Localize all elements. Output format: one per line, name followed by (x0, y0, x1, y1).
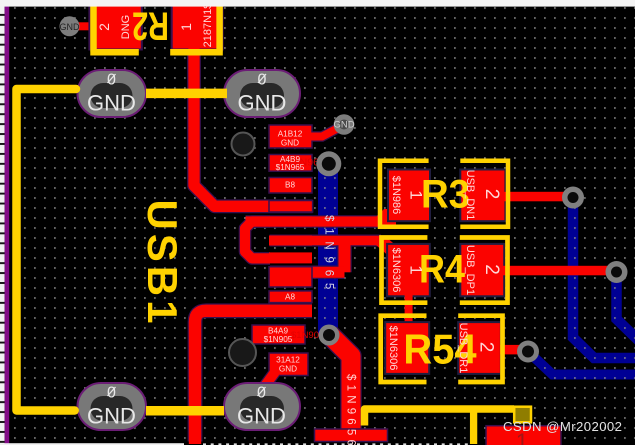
svg-text:USB_DR1: USB_DR1 (457, 323, 469, 374)
svg-text:2: 2 (476, 342, 497, 353)
svg-text:USB1: USB1 (139, 199, 186, 327)
silkscreen R3 right bracket (460, 161, 508, 227)
svg-text:GND: GND (333, 120, 354, 131)
svg-text:B8: B8 (285, 181, 295, 190)
mounting pad GND oval 3 (78, 383, 147, 430)
pad: yellow square (514, 407, 531, 423)
silkscreen R4 left bracket (382, 238, 428, 303)
svg-text:CSDN @Mr202002: CSDN @Mr202002 (503, 419, 622, 434)
wire: R4 pad1 down to R54 pad1 (405, 294, 413, 324)
wire: U-turn meander left (245, 222, 270, 259)
USB1 pad B1A12 (GND) (269, 353, 308, 376)
wire: R54 pad2 to via V3 (500, 345, 528, 355)
wire: yellow route bottom (stub, horizontal to square pad) (365, 409, 515, 426)
wire: GND route between ovals (top) (146, 89, 227, 99)
wire fringes (dark violet edges) (194, 46, 390, 442)
silkscreen R2 right bracket (170, 0, 223, 52)
silkscreen R54 right bracket (458, 316, 502, 382)
USB1 pad row p6 (269, 236, 312, 246)
svg-text:GND: GND (281, 139, 299, 148)
silkscreen R4 right bracket (460, 238, 508, 303)
silkscreen R54 left bracket (381, 316, 427, 382)
blue trace from via V1 (USB_DN1 bottom layer) (573, 197, 635, 358)
wire: bar2 diagonal into R4 pad1 corner (376, 236, 400, 258)
svg-text:GND: GND (238, 91, 287, 116)
wire: GND route left (top arm, vertical, bottom arm) (17, 89, 77, 411)
hole H1 (232, 133, 255, 156)
via V_GND2 (334, 114, 355, 135)
mounting pad GND oval 1 (78, 70, 147, 117)
mounting pad GND oval 4 (224, 383, 300, 430)
resistor R4 pad 1 ($1N6306) (387, 244, 430, 296)
svg-text:2: 2 (481, 264, 502, 275)
svg-text:GND: GND (87, 404, 136, 429)
via on blue trace (bottom) (319, 325, 340, 346)
svg-text:2187N1$: 2187N1$ (202, 3, 214, 48)
silkscreen R3 left bracket (380, 161, 429, 227)
svg-text:GND: GND (237, 404, 286, 429)
USB1 pad B4A9 ($1N905) (252, 325, 305, 344)
svg-text:1: 1 (407, 265, 426, 274)
USB1 pad A4B9 ($1N965) (269, 155, 312, 172)
board edge ruler (0, 0, 5, 445)
wire: pad A1B12 to via GND2 (300, 125, 344, 137)
svg-text:GND: GND (279, 365, 297, 374)
resistor R4 pad 2 (USB_DP1) (460, 244, 504, 296)
svg-text:$1N6306: $1N6306 (387, 326, 399, 371)
svg-text:1: 1 (178, 23, 194, 31)
resistor R3 pad 1 ($1N986) (388, 170, 430, 222)
USB1 pad row p4 (269, 201, 313, 213)
svg-text:31A12: 31A12 (276, 356, 300, 365)
USB1 pad row p7 (269, 252, 312, 263)
top white strip (0, 0, 635, 7)
wire bar1: meander to R3 pad 1 (246, 216, 391, 226)
wire: bar1 diagonal into R3 pad1 corner (375, 209, 396, 227)
svg-text:A1B12: A1B12 (278, 130, 303, 139)
svg-text:1: 1 (407, 190, 426, 199)
svg-text:A8: A8 (285, 293, 295, 302)
wire: R2 pad1 trace down + diagonal + wide bar to USB pad row p4 (194, 46, 313, 206)
via V2 (606, 261, 628, 283)
wire bar2: meander to R4 pad 1 (270, 236, 382, 246)
svg-text:R3: R3 (421, 173, 470, 217)
wire: stub from via GND1 to R2 pad 2 (70, 22, 94, 30)
svg-text:$1N905: $1N905 (264, 335, 293, 344)
blue trace from via V3 (R54 bottom layer) (528, 352, 635, 375)
svg-text:2: 2 (96, 23, 112, 31)
blue trace: bottom-layer vertical net $1N965 (318, 163, 338, 335)
via V_GND1 (60, 16, 80, 36)
wire: R4 pad2 to via V2 (503, 266, 617, 276)
USB1 pad A1B12 (GND) (269, 125, 312, 148)
svg-text:$1N6306: $1N6306 (390, 248, 402, 293)
bottom white strip (0, 443, 184, 445)
svg-text:$1N986: $1N986 (390, 176, 402, 215)
wire: GND route between ovals (bottom) (146, 406, 224, 416)
wire: $1N965 from via (blue bottom) diagonal + vertical trunk (329, 334, 351, 432)
mounting pad GND oval 2 (224, 70, 300, 117)
svg-text:$1N965: $1N965 (323, 215, 335, 296)
hole H2 (229, 339, 256, 366)
resistor R54 pad 1 ($1N6306) (385, 322, 429, 374)
svg-text:GND: GND (60, 22, 81, 32)
USB1 pad row p5 (269, 216, 312, 226)
wire: T branch down from bar2 (339, 241, 351, 273)
blue trace from via V2 (USB_DP1 bottom layer) (617, 272, 635, 341)
svg-text:2: 2 (481, 189, 502, 200)
via on blue trace (top) (316, 151, 341, 176)
silkscreen R2 left bracket (90, 0, 139, 52)
board outline (purple) (5, 0, 10, 445)
svg-text:$1N9656: $1N9656 (345, 374, 357, 445)
USB1 pad A8 (269, 291, 312, 303)
resistor R54 pad 2 (USB_DR1) (458, 322, 501, 374)
resistor R2 pad 2 (GND) (89, 0, 141, 50)
svg-text:USB_DN1: USB_DN1 (464, 170, 476, 221)
USB1 pad B8 (269, 178, 312, 194)
wire: bottom horizontal bar (315, 429, 388, 442)
USB1 pad rows p8/p9 (269, 267, 312, 287)
pad 1 (bottom right component) (486, 426, 561, 445)
resistor R2 pad 1 ($1N782) (172, 0, 223, 50)
wire: R3 pad2 to via V1 (503, 192, 573, 202)
svg-text:R2: R2 (132, 3, 169, 48)
via V3 (517, 341, 539, 363)
svg-text:$1N965: $1N965 (276, 163, 305, 172)
resistor R3 pad 2 (USB_DN1) (460, 170, 505, 222)
wire: B1A12 diagonal to GND oval4 (259, 372, 275, 394)
wire: return bar from T to pad column (270, 267, 345, 278)
via V1 (562, 187, 584, 209)
bottom dashed strip (203, 443, 469, 445)
svg-text:USB_DP1: USB_DP1 (464, 245, 476, 295)
wire: yellow vertical drop to bottom edge (470, 409, 477, 444)
svg-text:DNG: DNG (120, 15, 132, 39)
USB1 pad row p11 + wide bar4 + trunk down (195, 311, 312, 444)
svg-text:GND: GND (87, 91, 136, 116)
